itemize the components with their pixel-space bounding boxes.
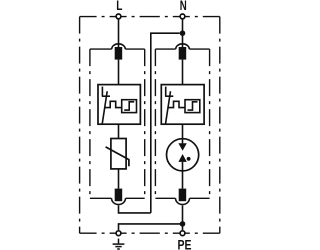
- wire spark-gap box to varistor: [118, 124, 120, 138]
- terminal N: [180, 14, 185, 19]
- spark gap U1 electrode tick: [102, 95, 110, 97]
- wire F2 down and right to node: [119, 205, 151, 213]
- gas discharge tube lower arrow: [178, 154, 186, 162]
- gas discharge tube circle: [167, 139, 199, 171]
- spark gap U2 electrode tick: [165, 95, 173, 97]
- triggered spark gap U1 box (left): [98, 85, 140, 125]
- varistor RV1 diagonal stroke: [106, 147, 129, 166]
- disconnector F3 arc (top right): [176, 44, 190, 49]
- SPD module box (left) dashed: [90, 49, 145, 198]
- spark gap U1 trigger unit step symbol: [124, 102, 134, 110]
- wire F3 to spark-gap box right: [182, 60, 184, 85]
- gas discharge tube upper arrow: [178, 143, 186, 151]
- wire F1 to spark-gap box: [118, 60, 120, 85]
- terminal earth: [116, 231, 121, 236]
- varistor RV1 body: [111, 139, 126, 169]
- spark gap U2 trigger unit step symbol: [188, 102, 198, 110]
- gas discharge tube gas dot: [187, 157, 191, 161]
- svg-text:L: L: [116, 0, 122, 13]
- outer enclosure dashed border: [80, 17, 220, 234]
- spark gap U1 electrode blade: [102, 91, 107, 124]
- spark gap U2 trigger unit box: [185, 100, 200, 113]
- terminal PE: [180, 231, 185, 236]
- wire L terminal to disconnector F1: [118, 19, 120, 47]
- SPD module box (right) dashed: [155, 49, 209, 198]
- wire PE bus to earth terminal: [119, 224, 183, 230]
- spark gap U1 trigger unit box: [122, 100, 137, 113]
- triggered spark gap U2 box (right): [161, 85, 204, 125]
- spark gap U2 trigger pulse waveform: [168, 101, 185, 107]
- wire N link vertical: [151, 33, 180, 213]
- junction node N: [180, 30, 186, 36]
- spark gap U2 electrode blade: [166, 91, 171, 124]
- disconnector F1 arc (top left): [112, 44, 126, 49]
- wire varistor to disconnector F2: [118, 169, 120, 189]
- wire N terminal to junction: [182, 19, 184, 47]
- wire spark-gap box right to gas discharge tube: [182, 124, 184, 143]
- svg-text:PE: PE: [178, 238, 192, 250]
- disconnector F4 arc (bottom right): [176, 198, 190, 204]
- junction node PE: [180, 221, 186, 227]
- disconnector F2 arc (bottom left): [112, 198, 126, 204]
- ground symbol: [113, 239, 125, 249]
- disconnector F2 fuse body: [115, 189, 123, 202]
- disconnector F1 fuse body: [115, 47, 123, 60]
- svg-text:N: N: [180, 0, 187, 13]
- disconnector F3 fuse body: [179, 47, 187, 60]
- spark gap U2 electrode stub: [165, 87, 167, 97]
- spark gap U1 trigger pulse waveform: [105, 101, 122, 107]
- spark gap U1 electrode stub: [101, 87, 103, 97]
- wire gas discharge tube to disconnector F4: [182, 162, 184, 189]
- disconnector F4 fuse body: [179, 189, 187, 202]
- wire F4 to PE node: [182, 205, 184, 230]
- terminal L: [116, 14, 121, 19]
